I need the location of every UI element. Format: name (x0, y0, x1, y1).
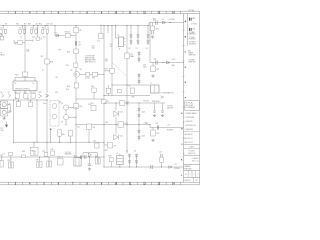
svg-text:C14: C14 (97, 41, 100, 43)
svg-text:R16: R16 (67, 86, 70, 88)
svg-text:R22: R22 (105, 59, 108, 61)
svg-text:R8 220: R8 220 (65, 32, 70, 34)
svg-text:D2: D2 (129, 48, 131, 50)
resistor R14 (74, 49, 79, 54)
diode D13 column (137, 26, 139, 35)
wire left H4 (0, 99, 48, 101)
svg-text:C38: C38 (50, 149, 53, 151)
svg-text:100n: 100n (32, 36, 35, 38)
svg-text:INST. CO: INST. CO (192, 161, 200, 163)
capacitor C20 (155, 60, 157, 64)
svg-text:TP1: TP1 (58, 49, 61, 51)
capacitor C8 (74, 41, 76, 45)
diode D9 (166, 61, 169, 64)
capacitor C10 (87, 124, 92, 130)
svg-text:COIL: COIL (0, 130, 4, 132)
wire V x150 low (149, 125, 151, 128)
svg-text:J2-1: J2-1 (0, 128, 3, 130)
svg-text:1K5: 1K5 (56, 77, 59, 79)
capacitor C15 polarized (89, 157, 91, 164)
svg-text:R12: R12 (16, 24, 19, 26)
LED D2 (1, 101, 8, 108)
svg-text:J4: J4 (119, 48, 121, 50)
ground (152, 35, 154, 36)
svg-text:R30: R30 (105, 150, 108, 152)
svg-text:R23: R23 (105, 122, 108, 124)
svg-text:R13: R13 (28, 24, 31, 26)
capacitor C21 (120, 101, 125, 106)
svg-text:+12 RUN: +12 RUN (168, 19, 175, 21)
svg-text:TO COIL: TO COIL (65, 152, 71, 154)
svg-text:T1: T1 (150, 83, 152, 85)
svg-text:SOLENOID: SOLENOID (189, 43, 196, 45)
svg-text:R39: R39 (36, 160, 39, 162)
resistor R6 on jog (14, 42, 25, 44)
resistor R27 (57, 159, 63, 166)
svg-text:D19: D19 (130, 54, 133, 56)
ground (8, 104, 11, 106)
note box (185, 101, 200, 110)
resistor R3 / capacitor C3 (33, 26, 35, 30)
svg-text:TEMP SEN: TEMP SEN (188, 61, 195, 63)
capacitor C18 (155, 20, 157, 24)
capacitor C39 polarized (58, 130, 61, 137)
svg-text:PWR GND: PWR GND (152, 101, 160, 103)
svg-text:(SEE NOTE 2): (SEE NOTE 2) (85, 61, 96, 63)
svg-text:R10: R10 (15, 74, 18, 76)
svg-text:R59: R59 (156, 28, 159, 30)
svg-text:C4: C4 (47, 28, 49, 30)
svg-text:C37: C37 (33, 152, 36, 154)
transistor Q7 (9, 94, 11, 97)
svg-text:5. SHIELDED: 5. SHIELDED (185, 129, 194, 131)
svg-text:R13: R13 (31, 92, 34, 94)
wire H6b (76, 124, 150, 126)
svg-text:D23: D23 (120, 112, 123, 114)
zener Z2 (115, 125, 117, 135)
junction dots (2, 24, 5, 27)
svg-text:C42: C42 (156, 133, 159, 135)
svg-text:G: G (181, 113, 183, 115)
svg-text:TO IGN: TO IGN (167, 106, 172, 108)
ground (152, 74, 154, 75)
svg-text:2K2: 2K2 (41, 56, 44, 58)
wire module feeds (24, 76, 26, 81)
module M2 (74, 158, 81, 166)
capacitor C19 (151, 31, 153, 34)
svg-text:K2: K2 (116, 153, 118, 155)
stub S2 ground (162, 103, 164, 111)
wire vertical rail V3 (75, 26, 77, 158)
wire vertical rail V8 (111, 26, 113, 96)
capacitor C17 on bus (150, 165, 152, 169)
resistor R12 (24, 94, 28, 98)
node output arrow X4 (46, 94, 49, 98)
wire V x47 (46, 34, 48, 59)
svg-text:NOTES: NOTES (189, 10, 195, 12)
resistor R15 (74, 63, 78, 67)
svg-text:C32: C32 (156, 69, 159, 71)
svg-text:ROTOR: ROTOR (105, 70, 110, 72)
svg-text:C44: C44 (159, 151, 162, 153)
svg-text:C7: C7 (27, 98, 29, 100)
resistor R47 (118, 89, 122, 93)
svg-text:R1: R1 (0, 28, 2, 30)
resistor R13 (31, 94, 35, 98)
svg-text:220u: 220u (33, 153, 37, 155)
resistor R48 (130, 88, 134, 93)
wire stub R5 (1, 34, 3, 37)
svg-text:R11: R11 (27, 49, 30, 51)
svg-text:TO FUEL: TO FUEL (189, 37, 195, 39)
wire main +12V bus (0, 25, 149, 27)
resistor R7 (37, 26, 39, 38)
wire V5 x13.5 (13, 100, 15, 142)
svg-text:Q5: Q5 (61, 122, 63, 124)
svg-text:OUT: OUT (38, 92, 41, 94)
resistor R9 (74, 28, 79, 33)
module M1 (dashed) (50, 101, 59, 127)
resistor R25 pair (38, 157, 40, 162)
junction (162, 61, 165, 64)
wire U1 pins (14, 91, 16, 94)
svg-text:R19: R19 (79, 106, 82, 108)
svg-text:D11: D11 (50, 24, 53, 26)
svg-text:47n: 47n (78, 44, 81, 46)
wire bottom bus right (104, 166, 184, 168)
capacitor C12 (1, 157, 3, 161)
junction (169, 21, 172, 24)
svg-text:+12: +12 (167, 124, 170, 126)
wire ignition feed (149, 22, 184, 24)
svg-text:C29: C29 (92, 46, 95, 48)
svg-text:C36: C36 (93, 140, 96, 142)
svg-text:TO IGNITION: TO IGNITION (85, 55, 96, 57)
resistor R32 (118, 122, 124, 127)
wire bottom bus left (0, 156, 104, 158)
svg-text:R3: R3 (31, 28, 33, 30)
svg-text:C34: C34 (77, 127, 80, 129)
wire V x70.5 (70, 136, 72, 142)
svg-text:470u: 470u (43, 103, 47, 105)
svg-text:PUMP RLY: PUMP RLY (189, 39, 196, 41)
svg-text:R30: R30 (109, 155, 112, 157)
svg-text:F4: F4 (146, 123, 148, 125)
svg-text:SHEET 1: SHEET 1 (184, 180, 191, 182)
svg-text:J5: J5 (42, 70, 44, 72)
svg-text:R55: R55 (91, 103, 94, 105)
resistor R21 (33, 142, 35, 147)
resistor R20 (68, 131, 73, 136)
svg-text:R49: R49 (132, 96, 135, 98)
transistor Q1 (74, 71, 80, 77)
resistor R33 (152, 128, 154, 131)
svg-text:Q8: Q8 (59, 102, 61, 104)
svg-text:47K: 47K (105, 61, 108, 63)
svg-text:POWER: POWER (188, 150, 195, 152)
transistor Q4 (63, 105, 68, 110)
node output arrow X3 (39, 94, 42, 98)
svg-text:R54: R54 (66, 89, 69, 91)
svg-text:REV B 11-17: REV B 11-17 (185, 138, 193, 140)
svg-text:FUSE: FUSE (193, 23, 197, 25)
svg-text:R44: R44 (95, 156, 98, 158)
svg-text:1a: 1a (33, 83, 35, 85)
svg-text:D7: D7 (129, 86, 131, 88)
svg-text:K3: K3 (107, 101, 109, 103)
svg-text:R18: R18 (50, 62, 53, 64)
capacitor C14b (84, 155, 86, 159)
diode D11 column (138, 125, 140, 130)
feedback loop wire (83, 152, 98, 154)
connector U2 (119, 154, 121, 156)
title block (184, 144, 200, 146)
svg-text:R14: R14 (67, 51, 70, 53)
svg-text:D12: D12 (42, 151, 45, 153)
svg-text:C16: C16 (126, 102, 129, 104)
wire V x37 (36, 100, 38, 142)
wire mid bus H3 (104, 95, 150, 97)
svg-text:C33: C33 (55, 92, 58, 94)
capacitor C9 (86, 72, 90, 76)
svg-text:10u: 10u (126, 104, 129, 106)
svg-text:R17: R17 (92, 77, 95, 79)
capacitor C22 (156, 125, 158, 129)
transistor Q6 (2, 94, 4, 97)
resistor R28 pair (95, 158, 97, 164)
svg-text:D5: D5 (126, 151, 128, 153)
svg-text:D1: D1 (55, 32, 57, 34)
diode D1 (54, 26, 56, 36)
diode D5 column (129, 154, 131, 165)
svg-text:R61: R61 (62, 134, 65, 136)
svg-text:R11: R11 (15, 92, 18, 94)
wire H5b (14, 141, 105, 143)
transformer T1 (151, 85, 159, 93)
svg-text:C8: C8 (78, 42, 80, 44)
resistor R8 (65, 33, 70, 37)
svg-text:C3: C3 (36, 28, 38, 30)
capacitor C5 (100, 26, 102, 34)
svg-text:Q7: Q7 (7, 92, 9, 94)
op-amp U1 ignition control module (13, 81, 37, 91)
svg-text:Q1: Q1 (70, 69, 72, 71)
svg-text:R37: R37 (7, 160, 10, 162)
svg-text:C2: C2 (24, 28, 26, 30)
svg-text:C31: C31 (153, 58, 156, 60)
connector U3 (115, 26, 117, 39)
svg-text:TO ICM: TO ICM (143, 100, 149, 102)
arrow node left (5, 125, 8, 128)
resistor R35 (125, 53, 130, 59)
relay coil on V1 (102, 99, 106, 103)
diode D8 (162, 21, 165, 24)
wire stub x108 (107, 26, 109, 34)
svg-text:B1: B1 (195, 180, 197, 182)
svg-text:DIST: DIST (105, 69, 108, 71)
diode D12 column (130, 26, 132, 35)
wire H aux y85 (112, 84, 150, 86)
resistor R55 (91, 105, 96, 110)
svg-text:3: 3 (191, 23, 192, 25)
diode D6 column (136, 154, 138, 165)
wire vertical rail V2 (126, 26, 128, 154)
resistor R31 (152, 63, 154, 67)
connector fingers left (0, 101, 2, 103)
resistor R18 (45, 59, 50, 64)
resistor R4 / capacitor C4 (44, 26, 46, 30)
svg-text:R41 0.5: R41 0.5 (57, 157, 63, 159)
svg-text:+: + (92, 164, 93, 166)
svg-text:R9: R9 (79, 30, 81, 32)
wire vertical rail V1 (103, 26, 105, 168)
diode D15 column (138, 52, 140, 63)
svg-text:4.7: 4.7 (153, 20, 155, 22)
svg-text:D6: D6 (134, 151, 136, 153)
svg-text:470: 470 (14, 44, 17, 46)
svg-text:C35: C35 (92, 127, 95, 129)
svg-text:C9 10n: C9 10n (85, 77, 90, 79)
svg-text:D3: D3 (136, 48, 138, 50)
svg-text:D24: D24 (120, 135, 123, 137)
wire jog to ign feed (148, 23, 150, 26)
transistor Q3 (52, 114, 57, 119)
wire Q1 output (80, 73, 104, 75)
off-page connector J1-2 battery (188, 18, 191, 21)
switch S1a box on V8 (110, 68, 114, 73)
svg-text:CHECKED: CHECKED (184, 169, 192, 171)
resistor R29 (109, 158, 113, 162)
svg-text:POWER: POWER (174, 168, 181, 170)
wire V3 low H (76, 98, 104, 100)
svg-text:R56: R56 (91, 86, 94, 88)
wire V x150 top (149, 23, 151, 63)
svg-text:4: 4 (190, 174, 191, 176)
svg-text:1b: 1b (15, 83, 17, 85)
diode D16 column (138, 74, 140, 85)
svg-text:C15: C15 (110, 44, 113, 46)
svg-text:D4: D4 (146, 48, 148, 50)
resistor R2 / capacitor C2 (21, 26, 23, 30)
svg-text:TEMP SEN: TEMP SEN (188, 54, 195, 56)
svg-text:TO DISTRIBUTOR: TO DISTRIBUTOR (160, 93, 174, 95)
svg-text:3. SEE SHT 2: 3. SEE SHT 2 (185, 121, 194, 123)
fuse F3 on bus (22, 155, 26, 158)
diode D4 (44, 153, 48, 156)
svg-text:RES 1/4W: RES 1/4W (185, 105, 193, 107)
down arrow node (50, 129, 52, 131)
svg-text:R4: R4 (42, 28, 44, 30)
capacitor C13 (51, 151, 55, 155)
resistor R56 (92, 88, 97, 92)
wire power feed H7 (150, 127, 184, 129)
resistor R11 (15, 94, 19, 98)
resistor R30 (152, 23, 154, 27)
svg-text:R27: R27 (113, 145, 116, 147)
svg-text:+: + (54, 128, 55, 130)
svg-text:4148: 4148 (142, 135, 145, 137)
resistor R5 (0, 36, 4, 40)
svg-text:Q4: Q4 (61, 103, 63, 105)
svg-text:C30: C30 (143, 64, 146, 66)
svg-text:100n: 100n (143, 66, 147, 68)
node arrow X5 (45, 94, 48, 98)
transistor Q5 (63, 115, 68, 120)
svg-text:Q6: Q6 (0, 92, 2, 94)
svg-text:IGNITION CONTROL: IGNITION CONTROL (15, 88, 30, 90)
wire V4 (24, 26, 26, 73)
svg-text:R15: R15 (66, 65, 69, 67)
wire sensor feed H2b (150, 62, 184, 64)
diode D14 column (147, 26, 149, 35)
svg-text:IGNITION: IGNITION (188, 153, 196, 155)
svg-text:R14: R14 (39, 24, 42, 26)
wire H8 (104, 102, 165, 104)
resistor R17 (92, 72, 97, 76)
svg-text:R12: R12 (24, 92, 27, 94)
resistor R26 pair (48, 157, 50, 161)
resistor R10 (23, 72, 28, 76)
svg-text:R58: R58 (153, 18, 156, 20)
resistor R19 (74, 104, 79, 109)
svg-text:D9: D9 (162, 19, 164, 21)
svg-text:SWITCH: SWITCH (167, 108, 173, 110)
svg-text:2: 2 (193, 174, 194, 176)
svg-text:R38: R38 (22, 151, 25, 153)
svg-text:4. GROUND LUG: 4. GROUND LUG (185, 125, 196, 127)
resistor R22 (9, 152, 12, 155)
svg-text:C41: C41 (155, 123, 158, 125)
resistor R34 (104, 144, 108, 146)
resistor R1 / capacitor C1 (2, 26, 4, 30)
ground (152, 139, 154, 140)
svg-text:4148: 4148 (142, 111, 145, 113)
capacitor C6 (18, 100, 20, 102)
diode D7 (169, 166, 172, 169)
wire Q4-Q5 (65, 110, 67, 115)
svg-text:REV C 01-05: REV C 01-05 (185, 142, 193, 144)
svg-text:R2: R2 (19, 28, 21, 30)
diode D10 column (138, 103, 140, 108)
capacitor C7 (30, 100, 32, 102)
LED D3 (1, 109, 8, 116)
svg-text:F2: F2 (3, 153, 5, 155)
resistor R46 box (108, 85, 110, 88)
transistor Q2 (52, 104, 57, 109)
capacitor C14 (79, 155, 81, 159)
mechanical link (dashed) (113, 63, 127, 76)
svg-text:10n: 10n (43, 36, 46, 38)
svg-text:1K0: 1K0 (27, 51, 30, 53)
zener Z1 (115, 103, 117, 111)
resistor R23 / R24 (10, 157, 12, 162)
svg-text:C6: C6 (15, 98, 17, 100)
svg-text:100n: 100n (92, 48, 96, 50)
svg-text:VR1: VR1 (74, 156, 77, 158)
svg-text:10n: 10n (110, 46, 113, 48)
ground (89, 167, 91, 168)
svg-text:0.1: 0.1 (20, 36, 22, 38)
buffer A1 (88, 153, 91, 157)
svg-text:+12: +12 (174, 164, 177, 166)
svg-text:POWER: POWER (167, 130, 174, 132)
off-page connector J1-4 ignition (188, 28, 191, 31)
svg-text:K1: K1 (117, 35, 119, 37)
resistor R16 (74, 83, 78, 88)
